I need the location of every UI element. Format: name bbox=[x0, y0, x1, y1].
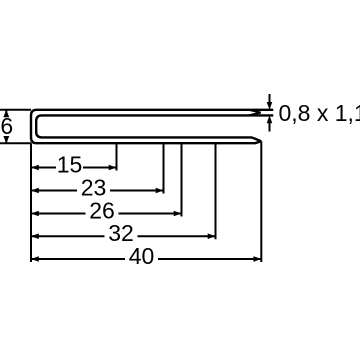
svg-text:0,8 x 1,1: 0,8 x 1,1 bbox=[279, 100, 360, 126]
svg-text:40: 40 bbox=[129, 243, 155, 269]
svg-text:15: 15 bbox=[57, 152, 83, 178]
svg-text:6: 6 bbox=[0, 113, 13, 139]
